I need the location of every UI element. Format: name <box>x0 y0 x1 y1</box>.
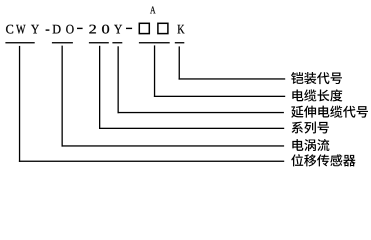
wire horizontal to label 电缆长度 <box>154 96 285 97</box>
label 电涡流 <box>292 139 329 151</box>
model code character C <box>6 25 13 34</box>
underline for group 20 <box>89 42 109 43</box>
wire vertical from 系列号 group <box>99 46 100 129</box>
label 系列号 <box>292 121 329 133</box>
wire horizontal to label 电涡流 <box>62 145 285 146</box>
option box 1 (cable length tens) <box>139 23 149 33</box>
wire vertical from 位移传感器 group <box>19 46 20 162</box>
annotation A above option boxes <box>150 6 155 13</box>
option box 2 (cable length units) <box>158 23 168 33</box>
underline for group Y <box>112 42 122 43</box>
wire vertical from 电涡流 group <box>62 46 63 147</box>
underline for group DO <box>52 42 73 43</box>
wire horizontal to label 位移传感器 <box>19 161 284 162</box>
model code character O <box>66 25 73 34</box>
underline for group CWY <box>5 42 34 43</box>
wire vertical from 铠装代号 group <box>179 46 180 79</box>
model code character K <box>178 25 185 34</box>
underline for group boxes <box>139 42 170 43</box>
wire vertical from 电缆长度 group <box>154 45 155 97</box>
label 铠装代号 <box>291 72 342 84</box>
wire horizontal to label 延伸电缆代号 <box>118 112 284 113</box>
wire horizontal to label 铠装代号 <box>179 78 286 79</box>
hyphen after CWY <box>46 29 50 30</box>
dash after DO <box>77 28 83 29</box>
model code character D <box>53 25 61 34</box>
label 位移传感器 <box>291 154 355 166</box>
dash after Y <box>126 28 132 29</box>
model code character Y <box>31 25 39 34</box>
model code character Y <box>114 25 122 34</box>
wire vertical from 延伸电缆代号 group <box>118 46 119 113</box>
model code character 2 <box>89 25 96 34</box>
model code character W <box>16 25 25 34</box>
underline for group K <box>175 42 185 43</box>
label 电缆长度 <box>292 89 342 101</box>
label 延伸电缆代号 <box>291 106 368 118</box>
wire horizontal to label 系列号 <box>99 128 284 129</box>
model code character 0 <box>102 25 109 34</box>
